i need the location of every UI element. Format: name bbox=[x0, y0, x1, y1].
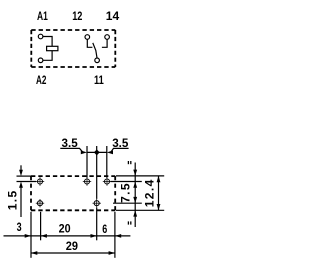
extension line x=96.8 (center pin) bbox=[96, 146, 98, 199]
leader under left 3.5 bbox=[60, 148, 82, 151]
12.4 arrow up bbox=[157, 176, 161, 182]
terminal 12 bbox=[85, 35, 90, 40]
1.5 upper leader bbox=[20, 165, 22, 170]
bottom ext line x=40.6 bbox=[40, 212, 42, 241]
coil K1 bbox=[47, 46, 58, 50]
fixed contact 12 bbox=[87, 40, 92, 48]
terminal A2 bbox=[38, 58, 43, 63]
29 arrow right bbox=[109, 251, 115, 255]
extension line x=106.8 bbox=[106, 146, 108, 178]
wire coil to A2 bbox=[43, 51, 52, 61]
pin hole E (bottom-mid) bbox=[93, 199, 101, 207]
arrow right at x=96.8 bbox=[91, 234, 97, 238]
terminal 11 bbox=[95, 58, 100, 63]
relay schematic outline (dashed box) bbox=[31, 30, 115, 67]
terminal 14 bbox=[105, 35, 110, 40]
arrow down to top edge bbox=[133, 170, 137, 176]
equal mark bottom bbox=[128, 221, 130, 224]
equal mark top bbox=[128, 161, 130, 164]
terminal A1 bbox=[38, 34, 43, 39]
dim chain line x=135.2 bbox=[134, 163, 136, 228]
1.5 ext stub pin row bbox=[17, 181, 37, 183]
fixed contact 14 bbox=[102, 40, 107, 48]
12.4 arrow down bbox=[157, 204, 161, 210]
arrow to x=106.8 bbox=[107, 151, 113, 155]
bottom ext line x=31 bbox=[30, 212, 32, 258]
dim line 3.5/3.5 bbox=[87, 151, 107, 153]
arrow left at x=40.6 bbox=[41, 234, 47, 238]
arrow left to x=114.9 bbox=[115, 234, 121, 238]
1.5 lower leader bbox=[20, 187, 22, 217]
arrow to x=87 bbox=[81, 151, 87, 155]
arrow up to bottom edge bbox=[133, 210, 137, 216]
right ext line bottom pin row bbox=[113, 202, 142, 204]
29 arrow left bbox=[31, 251, 37, 255]
leader under right 3.5 bbox=[111, 148, 129, 151]
1.5 upper arrow (down) bbox=[19, 170, 23, 176]
dim line 3/20/6 bbox=[4, 235, 131, 237]
pin hole B (top-mid) bbox=[83, 177, 91, 185]
wire A1 to coil bbox=[43, 37, 52, 47]
svg-text:A2: A2 bbox=[36, 73, 47, 87]
svg-text:14: 14 bbox=[106, 9, 120, 23]
double arrowhead diamond at x=96.8 bbox=[94, 149, 100, 155]
bottom ext line x=114.9 bbox=[114, 212, 116, 258]
PCB footprint outline (dashed box) bbox=[31, 176, 115, 210]
right ext line bottom edge bbox=[116, 209, 164, 211]
movable contact arm bbox=[93, 43, 97, 58]
7.5 arrow up bbox=[133, 182, 137, 188]
svg-text:1.5: 1.5 bbox=[5, 189, 19, 210]
svg-text:12: 12 bbox=[72, 9, 82, 23]
svg-text:29: 29 bbox=[66, 239, 78, 253]
pin hole C (top-right) bbox=[103, 177, 111, 185]
7.5 arrow down bbox=[133, 197, 137, 203]
svg-text:3: 3 bbox=[17, 220, 22, 234]
dim 12.4 line bbox=[158, 176, 160, 210]
right ext line top edge bbox=[116, 175, 164, 177]
svg-text:12.4: 12.4 bbox=[143, 178, 157, 207]
pin hole A (top-left) bbox=[36, 177, 44, 185]
right ext line top pin row bbox=[111, 181, 142, 183]
svg-text:11: 11 bbox=[94, 73, 104, 87]
extension line x=87 bbox=[86, 146, 88, 178]
1.5 lower arrow (up) bbox=[19, 182, 23, 188]
svg-text:20: 20 bbox=[59, 222, 71, 236]
arrow right to x=31 bbox=[25, 234, 31, 238]
dim line 29 bbox=[31, 252, 115, 254]
svg-text:7.5: 7.5 bbox=[118, 182, 132, 203]
1.5 ext stub top edge bbox=[17, 175, 32, 177]
svg-text:A1: A1 bbox=[37, 9, 48, 23]
pin hole D (bottom-left) bbox=[36, 199, 44, 207]
svg-text:6: 6 bbox=[102, 222, 107, 236]
